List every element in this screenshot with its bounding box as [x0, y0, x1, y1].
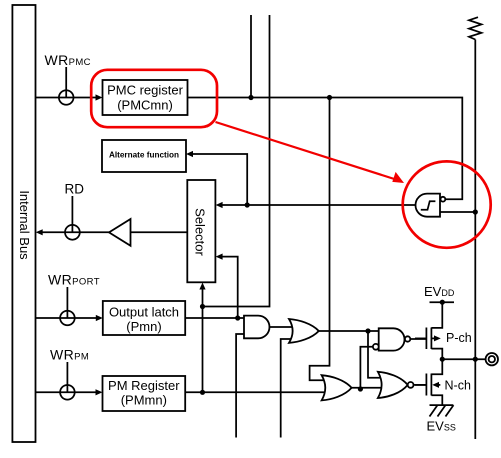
svg-text:WRPMC: WRPMC — [45, 52, 91, 68]
svg-text:Internal Bus: Internal Bus — [17, 190, 32, 260]
svg-text:P-ch: P-ch — [446, 331, 472, 345]
svg-text:(PMCmn): (PMCmn) — [117, 98, 173, 113]
svg-text:WRPM: WRPM — [50, 347, 89, 363]
svg-text:PM Register: PM Register — [108, 378, 180, 393]
svg-text:EVDD: EVDD — [424, 284, 455, 299]
svg-text:RD: RD — [65, 182, 85, 197]
svg-text:EVSS: EVSS — [427, 419, 456, 434]
svg-text:PMC register: PMC register — [107, 83, 184, 98]
svg-text:WRPORT: WRPORT — [48, 272, 100, 288]
svg-text:Alternate function: Alternate function — [109, 151, 179, 160]
svg-text:Selector: Selector — [192, 208, 207, 256]
svg-text:N-ch: N-ch — [445, 379, 471, 393]
svg-text:Output latch: Output latch — [109, 304, 179, 319]
svg-text:(Pmn): (Pmn) — [126, 319, 161, 334]
svg-text:(PMmn): (PMmn) — [121, 393, 167, 408]
